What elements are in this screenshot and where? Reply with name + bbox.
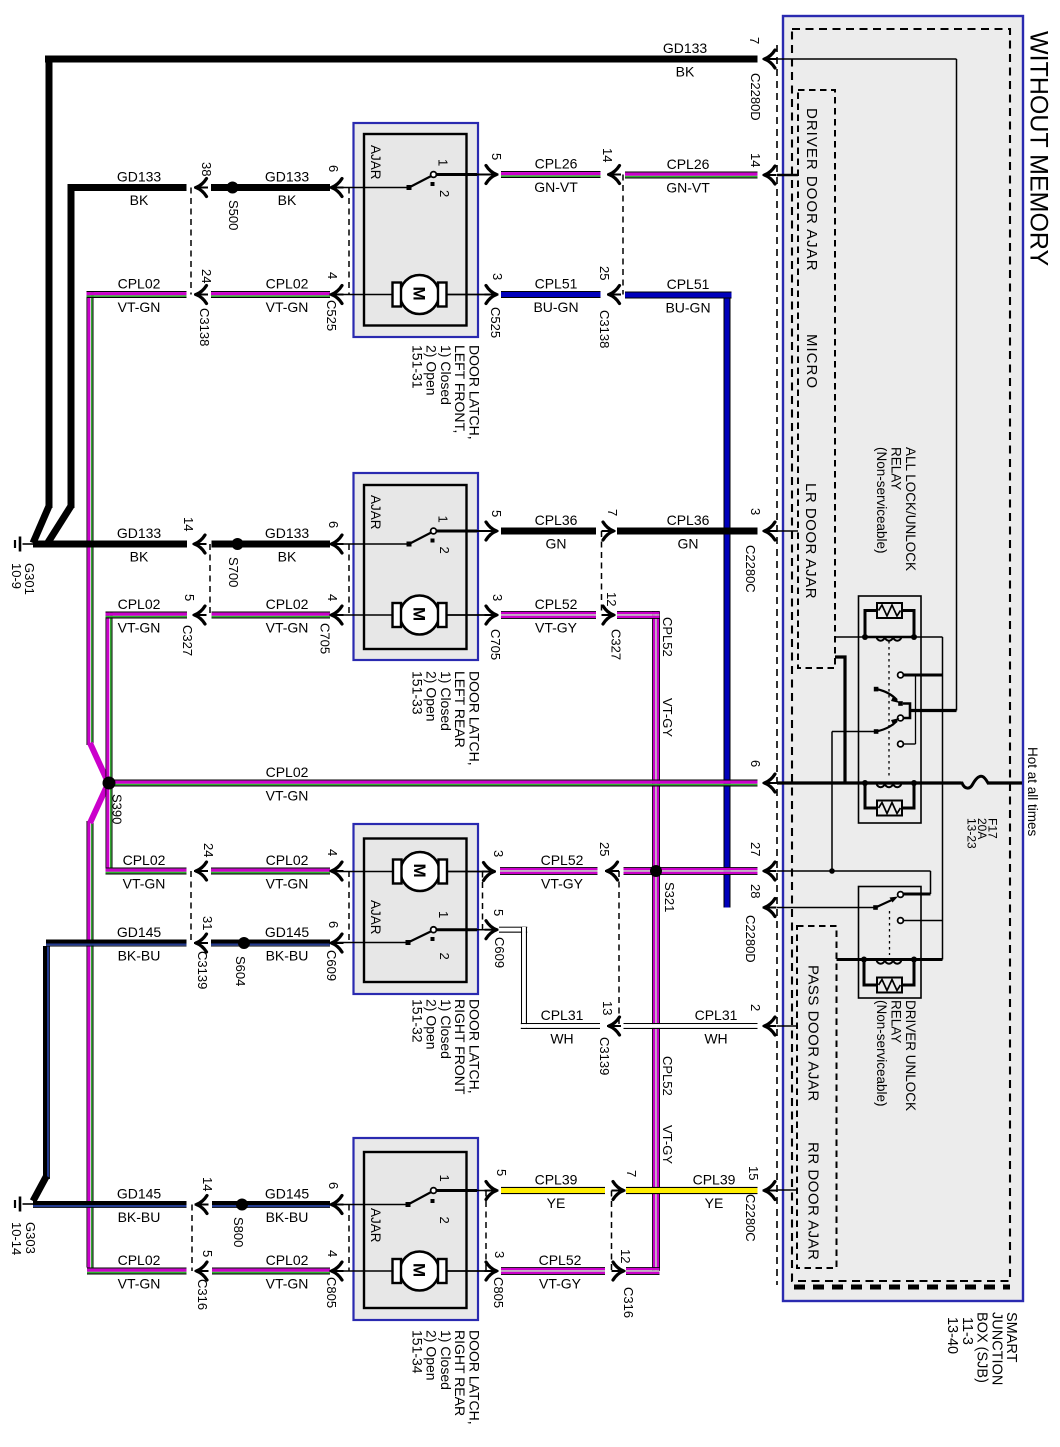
connector arrow C3138 pin38 arrow [194,179,208,197]
switch door ajar LF [331,172,487,190]
svg-text:CPL52: CPL52 [660,617,675,657]
coil K1 upper [865,636,914,639]
wire wire vertical to all-lock relay common [956,59,958,711]
svg-text:YE: YE [705,1195,724,1211]
svg-text:2: 2 [437,1217,452,1224]
svg-text:AJAR: AJAR [368,145,383,180]
svg-text:VT-GN: VT-GN [118,299,161,315]
svg-text:YE: YE [547,1195,566,1211]
connector C316 right face [611,1191,613,1272]
relay K1 upper arm [874,687,879,692]
MICRO dashed sub-box [798,90,835,668]
relay K1 NC contact [898,741,904,747]
svg-text:(Non-serviceable): (Non-serviceable) [874,447,889,554]
svg-text:CPL39: CPL39 [693,1172,736,1188]
relay K2 DRIVER UNLOCK box [859,887,922,999]
resistor K2 [864,960,914,993]
svg-text:VT-GN: VT-GN [266,876,309,892]
connector arrow C3138 pin24 arrow [194,286,208,304]
svg-text:CPL52: CPL52 [660,1056,675,1096]
svg-text:151-34: 151-34 [409,1330,425,1374]
relay K2 arm [873,905,878,910]
svg-text:CPL02: CPL02 [266,1252,309,1268]
svg-text:DRIVER DOOR AJAR: DRIVER DOOR AJAR [803,108,820,272]
wire wire SJB pin14 to MICRO [777,174,798,177]
svg-text:31: 31 [200,916,215,930]
svg-text:CPL39: CPL39 [535,1172,578,1188]
ground G303 [9,1197,38,1256]
svg-text:7: 7 [605,509,620,516]
connector arrow SJB pin2 arrow [763,1017,777,1035]
latch RF outer box [354,824,479,994]
wire wire SJB pin28 to unlock relay pivot [777,907,874,909]
wire CPL52 seg A row 871 [500,867,598,875]
connector arrow C705 pin5 arrow [485,522,499,540]
svg-text:14: 14 [600,148,615,162]
svg-text:14: 14 [200,1177,215,1191]
connector arrow C316 pin14 arrow [195,1196,209,1214]
svg-text:VT-GN: VT-GN [118,620,161,636]
wire CPL02 seg B row 294 [211,291,330,298]
svg-text:VT-GN: VT-GN [123,876,166,892]
wire GD133 top row [45,56,758,63]
svg-text:1: 1 [437,1175,452,1182]
svg-text:G303: G303 [23,1222,38,1254]
resistor K1 upper [865,603,914,637]
wire GD145 vertical to G303 [43,946,50,1179]
svg-text:CPL36: CPL36 [667,512,710,528]
wire micro to feed row (thick L) [835,657,845,783]
svg-text:2: 2 [437,547,452,554]
svg-text:C2280C: C2280C [743,1194,758,1242]
connector C316 left face [191,1205,193,1272]
svg-text:27: 27 [748,842,763,856]
svg-text:2: 2 [748,1004,763,1011]
wire GD133 seg B row 544 [212,541,331,548]
svg-text:VT-GY: VT-GY [535,620,578,636]
wire wire SJB pin3 to MICRO [777,530,798,532]
latch LF outer box [354,123,479,337]
svg-text:BK-BU: BK-BU [118,948,161,964]
wire CPL52 corner row 1271 [626,1267,660,1275]
connector arrow C327 pin14 arrow [193,535,207,553]
wire wire SJB pin15 to RR DOOR AJAR box [777,1189,797,1191]
svg-text:GN-VT: GN-VT [534,179,578,195]
svg-text:12: 12 [604,592,619,606]
splice S390 [103,777,116,790]
wire CPL51 seg B [625,292,732,299]
svg-text:CPL52: CPL52 [541,852,584,868]
connector C3139 left face [190,871,192,943]
svg-text:BOX (SJB): BOX (SJB) [974,1312,990,1383]
svg-text:BK: BK [278,192,297,208]
wire GD145 seg A row 943 [46,940,187,947]
svg-text:CPL36: CPL36 [535,512,578,528]
wire CPL02 vertical inner branch upper [106,612,113,780]
wire wire SJB pin2 to PASS DOOR AJAR box [777,1025,797,1027]
wire CPL51 seg A [501,291,601,298]
svg-text:M: M [410,287,429,301]
splice S500 [227,182,239,194]
svg-text:2: 2 [437,190,452,197]
svg-text:4: 4 [325,594,340,601]
connector arrow SJB pin27 arrow [763,862,777,880]
ground G301 [9,537,37,595]
connector arrow C805 pin5 arrow [485,1182,499,1200]
latch LR inner box [364,485,467,649]
svg-text:GD133: GD133 [117,525,162,541]
label GD133 BK top [663,40,708,80]
svg-text:15: 15 [746,1166,761,1180]
svg-text:Hot at all times: Hot at all times [1025,747,1040,837]
splice S321 [650,865,662,877]
svg-text:CPL51: CPL51 [535,276,578,292]
latch RR outer box [354,1138,479,1320]
svg-text:BK: BK [130,192,149,208]
wire wire micro to relay1 coil [835,636,865,638]
svg-text:25: 25 [597,842,612,856]
wire wire relay1 NO / relay2 coil tie [942,637,944,960]
svg-text:C3138: C3138 [597,310,612,348]
switch door ajar RR [331,1188,487,1207]
relay K2 NO contact [898,892,904,898]
svg-text:WH: WH [704,1031,727,1047]
connector arrow C3138 pin14 arrow [607,166,621,184]
svg-text:3: 3 [492,1251,507,1258]
svg-text:GD145: GD145 [265,1186,310,1202]
wire CPL52 seg A row 615 [501,611,596,619]
connector C3138 left face [190,188,192,295]
svg-text:1: 1 [436,911,451,918]
wire CPL02 seg A row 871 [106,868,187,875]
connector C609 dashed face [348,871,350,943]
svg-text:C327: C327 [180,625,195,656]
svg-text:GN: GN [678,536,699,552]
wire CPL36 seg B [617,528,758,535]
connector arrow C525 pin3 arrow [485,286,499,304]
svg-text:S321: S321 [662,882,677,912]
wire CPL31 seg A [521,1023,600,1029]
relay K1 actuator dotted link [888,641,890,779]
connector arrow C609 pin5 arrow [485,921,499,939]
wire CPL26 seg B [625,172,758,179]
connector arrow C327 pin12 arrow [602,606,616,624]
svg-text:3: 3 [490,594,505,601]
svg-text:C705: C705 [488,629,503,660]
connector arrow C316 pin12 arrow [612,1262,626,1280]
svg-text:5: 5 [489,510,504,517]
svg-text:BK: BK [130,549,149,565]
svg-text:MICRO: MICRO [803,334,820,389]
wire wire link latch RR pin3 [446,1270,487,1272]
connector arrow C327 pin7 arrow [602,522,616,540]
connector arrow C525 pin5 arrow [485,166,499,184]
latch RR inner box [364,1152,467,1308]
wire CPL36 seg A [501,528,596,535]
svg-text:3: 3 [490,273,505,280]
svg-text:CPL26: CPL26 [667,156,710,172]
svg-text:5: 5 [200,1250,215,1257]
wire CPL31 stub [499,927,527,933]
wire CPL02 bus row [106,780,758,787]
wire CPL52 vertical run [652,612,660,1272]
svg-text:LR DOOR AJAR: LR DOOR AJAR [802,483,819,599]
svg-text:151-32: 151-32 [409,999,425,1043]
wire CPL31 seg B [624,1023,758,1029]
svg-text:JUNCTION: JUNCTION [988,1312,1004,1385]
svg-text:C2280D: C2280D [748,73,763,121]
svg-text:CPL02: CPL02 [266,276,309,292]
connector arrow C705 pin4 arrow [330,606,344,624]
svg-text:25: 25 [597,266,612,280]
connector arrow C327 pin5 arrow [193,606,207,624]
connector C805 dashed face [348,1205,350,1272]
wire wire pin27 to relay1 lower arm [831,732,833,872]
svg-text:VT-GY: VT-GY [539,1276,582,1292]
svg-text:10-14: 10-14 [9,1222,24,1255]
svg-text:C609: C609 [324,950,339,981]
svg-text:C2280C: C2280C [743,545,758,593]
wire GD145 seg B row 1204 [212,1201,330,1208]
svg-text:VT-GN: VT-GN [118,1276,161,1292]
wire GD133 seg A row 544 [33,541,187,548]
svg-text:M: M [410,864,429,878]
wire GD133 seg A row2 [71,184,187,191]
svg-text:CPL31: CPL31 [695,1007,738,1023]
svg-text:CPL02: CPL02 [118,596,161,612]
svg-text:24: 24 [201,843,216,857]
svg-text:S604: S604 [233,956,248,986]
wire CPL52 seg B row 871 [624,867,758,875]
connector arrow C805 pin3 arrow [485,1262,499,1280]
svg-text:CPL52: CPL52 [539,1252,582,1268]
SJB bottom heavy dashes [794,1285,1010,1290]
wire wire coil node east [914,636,943,638]
switch door ajar LR [331,528,487,546]
svg-text:BK-BU: BK-BU [266,948,309,964]
svg-text:13-23: 13-23 [965,818,979,849]
wire wire SJB pin27 node [777,870,931,872]
wire CPL52 seg A row 1271 [501,1267,605,1275]
connector arrow C705 pin6 arrow [330,535,344,553]
svg-text:14: 14 [748,153,763,167]
svg-text:12: 12 [618,1249,633,1263]
svg-text:S800: S800 [231,1217,246,1247]
svg-text:6: 6 [326,521,341,528]
wire CPL39 seg B [626,1187,758,1194]
wire wire relay1 NC tie [915,675,917,744]
svg-text:S500: S500 [226,200,241,230]
svg-text:VT-GN: VT-GN [266,788,309,804]
svg-text:CPL51: CPL51 [667,276,710,292]
connector arrow SJB pin3 arrow [763,522,777,540]
svg-text:3: 3 [491,850,506,857]
connector face C2280 dashed line [776,45,778,1285]
svg-text:VT-GN: VT-GN [266,299,309,315]
wire CPL02 seg A row 1271 [87,1268,187,1275]
wire CPL02 seg A row 615 [106,612,188,619]
wire CPL39 seg A [501,1187,605,1194]
svg-text:4: 4 [325,1250,340,1257]
connector C705 dashed face [348,544,350,615]
wire CPL02 vertical inner branch lower [106,787,113,868]
wire wire link latch LR pin5 [467,530,488,532]
svg-text:VT-GN: VT-GN [266,1276,309,1292]
svg-text:CPL52: CPL52 [535,596,578,612]
svg-text:GN: GN [546,536,567,552]
svg-text:1: 1 [436,516,451,523]
splice S700 [232,538,244,550]
label CPL02 VT-GN bus [266,764,309,804]
wire GD133 vertical from row1 [46,59,53,508]
svg-text:BK-BU: BK-BU [118,1209,161,1225]
svg-text:GD133: GD133 [265,525,310,541]
connector arrow C3139 pin13 arrow [607,1017,621,1035]
connector arrow SJB pin28 arrow [763,899,777,917]
connector C327 left face [209,544,211,615]
connector arrow C609 pin4 arrow [330,862,344,880]
wire CPL02 vertical left branch lower [87,821,94,1268]
svg-text:4: 4 [325,272,340,279]
latch LF inner box [364,134,467,326]
relay K1 NO contact [898,672,904,678]
svg-text:11-3: 11-3 [959,1317,975,1345]
svg-text:VT-GY: VT-GY [660,1125,675,1164]
wire GD145 diagonal to G303 [33,1176,47,1201]
svg-text:RR DOOR AJAR: RR DOOR AJAR [805,1142,822,1261]
svg-text:C805: C805 [324,1277,339,1308]
motor M LF [331,275,489,314]
svg-text:CPL02: CPL02 [266,764,309,780]
latch LR outer box [354,473,479,660]
relay K1 lower arm [874,729,879,734]
svg-text:C316: C316 [195,1279,210,1310]
svg-text:C327: C327 [609,629,624,660]
wire GD133 diagonals to G301 [33,506,49,543]
connector C805 right dashed face [485,1191,487,1272]
svg-text:AJAR: AJAR [368,495,383,530]
connector arrow C805 pin6 arrow [330,1196,344,1214]
svg-text:BK-BU: BK-BU [266,1209,309,1225]
SJB outer module box (WITHOUT MEMORY) [783,16,1023,1301]
connector arrow C316 pin7 arrow [612,1182,626,1200]
wire GD145 seg A row 1204 [33,1201,187,1208]
svg-text:GD145: GD145 [265,924,310,940]
svg-text:AJAR: AJAR [368,900,383,935]
svg-text:WH: WH [550,1031,573,1047]
svg-text:6: 6 [326,1182,341,1189]
svg-text:M: M [410,1263,429,1277]
relay K2 NC contact [898,918,904,924]
svg-text:C3139: C3139 [195,951,210,989]
connector arrow SJB pin15 arrow [763,1182,777,1200]
wire wire link latch LF pin3 [446,294,487,296]
connector arrow C525 pin4 arrow [330,286,344,304]
svg-text:13-40: 13-40 [944,1317,960,1354]
svg-text:1: 1 [436,159,451,166]
svg-text:C525: C525 [488,307,503,338]
svg-text:C525: C525 [324,300,339,331]
connector arrow C609 pin3 arrow [482,863,496,881]
svg-text:C3139: C3139 [597,1037,612,1075]
wire CPL52 corner row 615 [617,611,660,619]
connector arrow SJB pin14 arrow [763,166,777,184]
svg-text:WITHOUT MEMORY: WITHOUT MEMORY [1025,31,1053,267]
svg-text:GN-VT: GN-VT [666,180,710,196]
coil K1 lower (on feed row) [877,784,902,788]
wire GD145 seg B row 943 [211,940,330,947]
svg-text:BK: BK [278,549,297,565]
svg-text:VT-GY: VT-GY [541,876,584,892]
connector arrow C3139 pin25 arrow [605,862,619,880]
connector C609 right dashed face [482,872,484,930]
svg-text:BK: BK [676,64,695,80]
svg-text:RELAY: RELAY [889,447,904,490]
connector arrow C3138 pin25 arrow [607,286,621,304]
motor M RR [331,1252,489,1291]
wire wire SJB pin7 to relay contact [777,58,957,60]
svg-text:2: 2 [437,953,452,960]
connector arrow C609 pin6 arrow [330,934,344,952]
svg-text:AJAR: AJAR [368,1208,383,1243]
svg-text:7: 7 [747,37,762,44]
connector arrow C3139 pin31 arrow [194,934,208,952]
svg-text:5: 5 [489,153,504,160]
svg-text:6: 6 [326,165,341,172]
svg-text:S390: S390 [110,794,125,824]
svg-text:CPL26: CPL26 [535,156,578,172]
connector arrow C316 pin5 arrow [195,1262,209,1280]
svg-text:GD133: GD133 [663,40,708,56]
wire CPL26 seg A [501,171,601,178]
svg-text:GD133: GD133 [117,169,162,185]
svg-text:24: 24 [199,269,214,283]
PASS/RR dashed sub-box [797,926,837,1268]
resistor K1 lower [865,783,914,816]
svg-text:C805: C805 [491,1277,506,1308]
junction pin27 node [829,868,835,874]
svg-text:VT-GY: VT-GY [660,698,675,737]
wire GD133 vertical from latch row [68,184,75,508]
connector C525 dashed face [348,188,350,295]
wire CPL31 vertical [521,927,527,1029]
smart junction box dashed outline [792,29,1010,1281]
svg-text:151-33: 151-33 [409,671,425,715]
motor M LR [331,596,489,635]
svg-text:DRIVER UNLOCK: DRIVER UNLOCK [903,1000,918,1111]
latch RF inner box [364,839,467,983]
svg-text:38: 38 [199,162,214,176]
svg-text:C3138: C3138 [197,308,212,346]
connector C327 right face [601,531,603,615]
svg-text:S700: S700 [226,557,241,587]
wire CPL51 vertical run [724,292,731,908]
connector arrow C525 pin6 arrow [330,179,344,197]
wire wire link latch RF pin3 [446,871,487,873]
svg-text:GD133: GD133 [265,169,310,185]
svg-text:CPL02: CPL02 [123,852,166,868]
svg-text:CPL31: CPL31 [541,1007,584,1023]
svg-text:CPL02: CPL02 [118,1252,161,1268]
svg-text:CPL02: CPL02 [118,276,161,292]
svg-text:SMART: SMART [1003,1312,1019,1363]
connector arrow C3139 pin24 arrow [194,862,208,880]
connector C3139 right face [618,871,620,1026]
wire CPL02 seg B row 1271 [212,1268,330,1275]
svg-text:5: 5 [491,909,506,916]
splice S604 [238,937,250,949]
connector arrow C705 pin3 arrow [485,606,499,624]
